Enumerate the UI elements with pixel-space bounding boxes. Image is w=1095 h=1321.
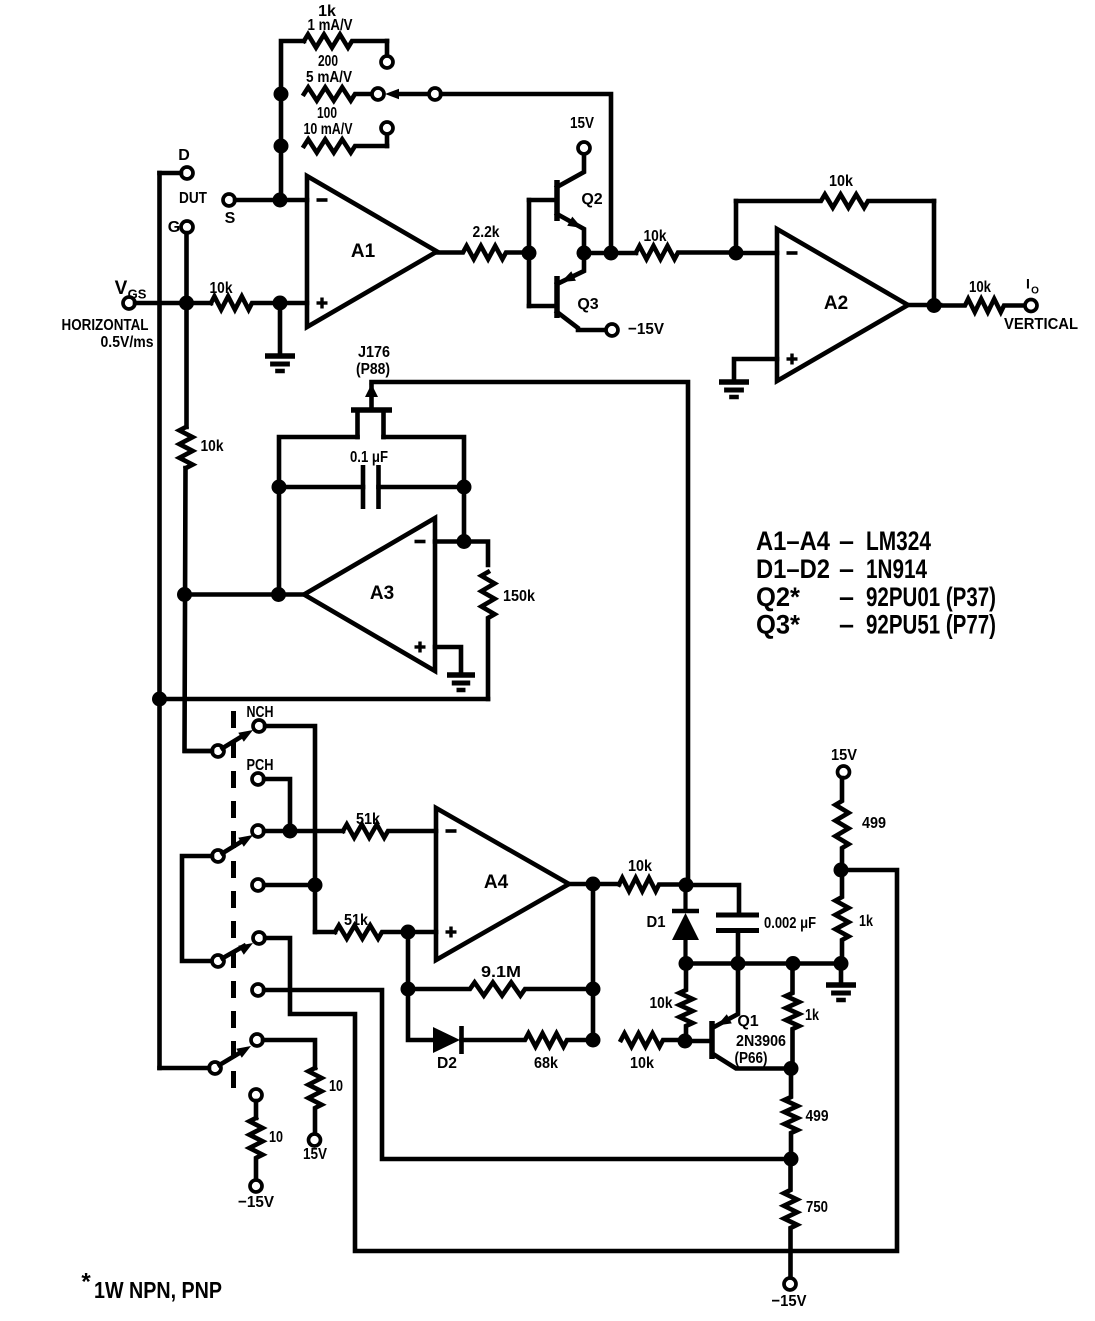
- wire cap bottom lead: [736, 931, 741, 964]
- svg-text:100: 100: [317, 105, 337, 122]
- svg-text:5 mA/V: 5 mA/V: [306, 69, 352, 86]
- terminal G: [181, 221, 193, 233]
- svg-text:Q2*: Q2*: [756, 582, 800, 612]
- resistor 10k base: [621, 1033, 685, 1046]
- arrow Q2 emitter NPN: [567, 217, 582, 228]
- switch contact NCH: [253, 720, 265, 732]
- terminal jack 200: [372, 88, 384, 100]
- switch arm 2: [212, 850, 224, 862]
- svg-text:9.1M: 9.1M: [481, 964, 521, 981]
- wire C3 to 51k: [264, 829, 343, 834]
- wire sense line: [399, 92, 429, 97]
- svg-text:A2: A2: [824, 293, 848, 314]
- terminal IO: [1025, 300, 1037, 312]
- svg-text:1k: 1k: [805, 1007, 819, 1024]
- switch wafer dashed line: [231, 711, 236, 1096]
- ground A1 plus: [265, 353, 295, 359]
- svg-text:0.002 μF: 0.002 μF: [764, 915, 816, 932]
- junction A4 plus: [401, 925, 416, 940]
- wire A4 fb vertical: [591, 884, 596, 1040]
- svg-text:10k: 10k: [969, 279, 991, 296]
- wire J176 gate stem: [369, 386, 374, 408]
- resistor 51k upper: [343, 824, 436, 837]
- svg-text:10k: 10k: [628, 858, 652, 875]
- svg-text:68k: 68k: [534, 1055, 558, 1072]
- svg-text:(P88): (P88): [356, 361, 390, 378]
- wire Q1 base: [685, 1039, 711, 1044]
- wire NCH corner to 51k: [315, 930, 335, 935]
- wire G rail lower: [185, 468, 213, 751]
- wire J176 gate line: [372, 382, 689, 885]
- resistor 2.2k: [437, 246, 523, 259]
- junction 9.1M left: [401, 982, 416, 997]
- switch arm 1: [212, 745, 224, 757]
- junction 499-1k: [834, 863, 849, 878]
- junction N2 gnd: [834, 956, 849, 971]
- svg-text:10k: 10k: [210, 280, 233, 297]
- svg-text:D1: D1: [647, 914, 666, 931]
- wire arm 1 line: [223, 735, 245, 748]
- svg-text:1N914: 1N914: [866, 554, 927, 584]
- wire A2 feedback left: [734, 201, 739, 253]
- junction A3 out loop: [271, 587, 286, 602]
- resistor 51k lower: [335, 925, 408, 938]
- op-amp A4: [436, 808, 569, 960]
- svg-text:10k: 10k: [644, 228, 667, 245]
- resistor 10k horizontal-input: [211, 296, 307, 309]
- svg-text:−15V: −15V: [238, 1194, 274, 1211]
- svg-text:Q1: Q1: [737, 1013, 758, 1030]
- wire emitters to 10k: [584, 251, 636, 256]
- wire arm 4 line: [220, 1052, 243, 1066]
- svg-text:499: 499: [862, 815, 886, 832]
- resistor 499 top: [835, 778, 848, 870]
- wire G rail with corner to switch arm: [184, 233, 189, 427]
- wire sense line to emitters: [441, 94, 611, 253]
- wire A2 output: [908, 303, 940, 308]
- terminal 15V right: [838, 766, 850, 778]
- resistor 10k output: [940, 299, 1025, 312]
- wire resistor-bank left rail: [281, 41, 304, 200]
- arrow arm 2: [238, 835, 253, 847]
- transistor J176 channel bar: [351, 407, 392, 413]
- junction base node: [522, 246, 537, 261]
- svg-text:HORIZONTAL: HORIZONTAL: [62, 317, 149, 334]
- wire A4 output: [569, 882, 619, 887]
- svg-text:–: –: [839, 582, 854, 612]
- switch arm 4: [209, 1062, 221, 1074]
- svg-text:S: S: [225, 210, 236, 227]
- junction S-rail: [273, 193, 288, 208]
- wire N2 ground stub: [839, 964, 844, 985]
- resistor 1k low: [786, 964, 799, 1069]
- resistor 1k (1 mA/V): [304, 34, 387, 47]
- wire Q3 base: [529, 304, 556, 309]
- resistor 10k Q1 base: [679, 964, 692, 1042]
- wire arm 2 line: [223, 840, 245, 853]
- wire Q1 emitter: [714, 964, 738, 1028]
- wire arm 4 to left rail: [160, 1066, 210, 1071]
- junction cap right: [457, 480, 472, 495]
- wire J176 left leg: [355, 410, 360, 437]
- transistor Q2 bar: [554, 180, 560, 221]
- svg-text:VERTICAL: VERTICAL: [1004, 316, 1078, 333]
- svg-text:A4: A4: [484, 872, 509, 893]
- arrow sense plug: [385, 89, 399, 99]
- junction 9.1M right: [586, 982, 601, 997]
- switch contact C4: [252, 879, 264, 891]
- terminal S: [223, 194, 235, 206]
- junction rail-200: [274, 87, 289, 102]
- wire A2 inv input: [736, 251, 777, 256]
- svg-text:0.5V/ms: 0.5V/ms: [101, 334, 154, 351]
- junction D1 top: [679, 878, 694, 893]
- resistor 10k A4 out: [619, 878, 686, 891]
- wire Q2 emitter: [557, 214, 584, 253]
- svg-text:Q3: Q3: [577, 296, 598, 313]
- svg-text:1 mA/V: 1 mA/V: [308, 17, 353, 34]
- arrow arm 1: [238, 730, 253, 742]
- wire left rail: [157, 173, 162, 1068]
- junction N2 Q1 emitter: [731, 956, 746, 971]
- junction G-VGS: [179, 296, 194, 311]
- resistor 1k top: [835, 870, 848, 964]
- svg-text:150k: 150k: [503, 588, 535, 605]
- switch contact C6: [252, 984, 264, 996]
- resistor 10 neg: [249, 1118, 262, 1180]
- junction 499-750: [784, 1152, 799, 1167]
- terminal -15V bottom: [784, 1278, 796, 1290]
- ground A3 plus: [447, 672, 475, 678]
- wire A2 plus input: [734, 359, 777, 381]
- resistor 10k to A2: [636, 246, 736, 259]
- junction 10k A1 plus: [273, 296, 288, 311]
- terminal jack 100: [381, 122, 393, 134]
- junction sense-emitter: [604, 246, 619, 261]
- svg-text:DUT: DUT: [179, 190, 207, 207]
- switch contact C8: [250, 1089, 262, 1101]
- wire Q1 collector: [713, 1054, 791, 1069]
- svg-text:A1: A1: [351, 241, 376, 262]
- svg-text:0.1 μF: 0.1 μF: [350, 449, 388, 466]
- switch contact C7: [251, 1034, 263, 1046]
- arrow Q3 emitter PNP: [561, 271, 576, 282]
- op-amp A1: [307, 176, 437, 327]
- wire arm 2-3 bracket: [182, 856, 212, 961]
- terminal D: [181, 167, 193, 179]
- svg-text:V: V: [115, 278, 128, 299]
- wire arm 1 to G rail: [185, 749, 212, 754]
- svg-text:2.2k: 2.2k: [473, 224, 500, 241]
- junction N2 1k: [786, 956, 801, 971]
- junction A4 out: [586, 877, 601, 892]
- ground N2: [826, 982, 856, 988]
- svg-text:51k: 51k: [356, 811, 380, 828]
- svg-text:Q3*: Q3*: [756, 610, 800, 640]
- svg-text:1k: 1k: [859, 913, 873, 930]
- wire C4 to NCH line: [264, 883, 315, 888]
- svg-text:−15V: −15V: [628, 321, 664, 338]
- wire arm 3 line: [223, 946, 245, 958]
- switch arm 3: [212, 955, 224, 967]
- wire A4 plus down: [408, 932, 433, 1040]
- svg-text:2N3906: 2N3906: [736, 1033, 786, 1050]
- ground A2 plus: [719, 379, 749, 385]
- op-amp A3: [304, 518, 435, 671]
- junction A3 out G rail: [177, 587, 192, 602]
- svg-text:750: 750: [806, 1199, 828, 1216]
- junction rail-100: [274, 139, 289, 154]
- wire J176 right leg: [381, 410, 386, 437]
- switch contact C3: [252, 825, 264, 837]
- svg-text:–: –: [839, 554, 854, 584]
- junction N2 D1: [679, 956, 694, 971]
- wire 1k to jack: [385, 41, 390, 56]
- arrow J176 gate: [365, 384, 378, 397]
- wire D to left rail: [160, 171, 182, 176]
- wire node N2: [686, 961, 841, 966]
- terminal -15V Q3: [606, 324, 618, 336]
- svg-text:15V: 15V: [570, 115, 594, 132]
- svg-text:A1–A4: A1–A4: [756, 526, 830, 556]
- wire 100 to jack: [385, 134, 390, 146]
- wire Q2 base: [529, 198, 556, 203]
- terminal 15V Q2: [578, 142, 590, 154]
- transistor Q3 bar: [554, 276, 560, 318]
- resistor 10k A2 feedback: [736, 194, 934, 207]
- svg-text:15V: 15V: [303, 1146, 327, 1163]
- wire D1 top to cap: [686, 885, 739, 915]
- diode D1: [672, 909, 699, 914]
- junction 68k-10k: [586, 1033, 601, 1048]
- wire C6 path to 499-750 node: [264, 990, 791, 1159]
- resistor 9.1M: [408, 982, 593, 995]
- svg-text:(P66): (P66): [735, 1050, 768, 1067]
- capacitor 0.002uF plates: [716, 913, 759, 918]
- svg-text:LM324: LM324: [866, 526, 931, 556]
- svg-text:10k: 10k: [630, 1055, 654, 1072]
- terminal 15V bottom: [309, 1134, 321, 1146]
- svg-text:O: O: [1031, 286, 1039, 297]
- svg-text:10k: 10k: [201, 438, 224, 455]
- resistor 499 low: [784, 1069, 797, 1160]
- svg-text:10: 10: [269, 1129, 283, 1146]
- switch contact PCH: [252, 773, 264, 785]
- transistor Q1 bar: [709, 1021, 715, 1059]
- junction C4-NCH: [308, 878, 323, 893]
- junction base Q1: [678, 1034, 693, 1049]
- svg-text:J176: J176: [358, 344, 390, 361]
- resistor 10k G rail: [179, 427, 192, 468]
- wire A3 plus input: [435, 647, 461, 674]
- op-amp A2: [777, 229, 908, 381]
- wire PCH down: [264, 779, 290, 831]
- arrow arm 4: [236, 1046, 251, 1058]
- wire NCH to A4: [265, 726, 315, 932]
- wire cap left lead: [279, 485, 363, 490]
- diode D2: [433, 1027, 460, 1053]
- terminal sense plug: [429, 88, 441, 100]
- junction collector node: [784, 1061, 799, 1076]
- svg-text:I: I: [1026, 276, 1030, 292]
- wire VGS to 10k: [135, 301, 211, 306]
- wire C8 to 10: [254, 1101, 259, 1118]
- junction left rail 150k: [152, 692, 167, 707]
- resistor 10 switch: [308, 1068, 321, 1134]
- resistor 68k: [462, 1033, 594, 1046]
- wire Q3 collector: [557, 312, 606, 330]
- switch contact C5: [253, 932, 265, 944]
- junction PCH-C3: [283, 824, 298, 839]
- svg-text:−15V: −15V: [772, 1293, 807, 1310]
- svg-text:1W NPN, PNP: 1W NPN, PNP: [94, 1277, 222, 1303]
- svg-text:10: 10: [329, 1078, 343, 1095]
- svg-text:A3: A3: [370, 583, 394, 604]
- svg-text:15V: 15V: [831, 747, 857, 764]
- svg-text:–: –: [839, 526, 854, 556]
- junction cap left: [272, 480, 287, 495]
- junction A2 out: [927, 298, 942, 313]
- svg-text:10k: 10k: [829, 173, 853, 190]
- svg-text:499: 499: [806, 1108, 829, 1125]
- svg-text:D1–D2: D1–D2: [756, 554, 830, 584]
- wire cap loop top left: [279, 437, 358, 595]
- svg-text:*: *: [81, 1268, 91, 1295]
- svg-text:–: –: [839, 610, 854, 640]
- wire A3 inv input: [435, 542, 488, 566]
- svg-text:10 mA/V: 10 mA/V: [304, 121, 353, 138]
- wire base rail: [527, 200, 532, 306]
- arrow Q1 emitter PNP: [717, 1014, 732, 1025]
- wire Q3 emitter: [557, 253, 584, 284]
- resistor 750: [784, 1159, 797, 1277]
- terminal jack 1k: [381, 56, 393, 68]
- svg-text:10k: 10k: [650, 995, 673, 1012]
- svg-text:Q2: Q2: [581, 191, 602, 208]
- wire A2 feedback right: [932, 201, 937, 306]
- svg-text:51k: 51k: [344, 912, 368, 929]
- wire 150k bottom line: [160, 697, 489, 702]
- junction A3 inv: [457, 534, 472, 549]
- svg-text:D: D: [178, 147, 190, 164]
- svg-text:G: G: [168, 219, 180, 236]
- arrow arm 3: [238, 943, 253, 955]
- wire A1 plus ground stub: [278, 303, 283, 355]
- resistor 200 (5 mA/V): [304, 87, 372, 100]
- terminal -15V bottom-left: [250, 1180, 262, 1192]
- wire A3 output: [184, 592, 304, 597]
- wire S to A1 inv input: [235, 198, 307, 203]
- capacitor 0.1uF plates: [361, 465, 366, 509]
- svg-text:92PU01 (P37): 92PU01 (P37): [866, 582, 996, 612]
- svg-text:200: 200: [318, 53, 338, 70]
- resistor 100 (10 mA/V): [304, 139, 387, 152]
- junction emitter node: [577, 246, 592, 261]
- wire cap right lead: [379, 485, 465, 490]
- wire cap loop top right: [384, 437, 465, 542]
- wire Q2 collector: [557, 154, 584, 187]
- junction A2 inv: [729, 246, 744, 261]
- svg-text:92PU51 (P77): 92PU51 (P77): [866, 610, 996, 640]
- resistor 150k: [481, 572, 494, 699]
- wire C5 path to right rail: [265, 870, 897, 1251]
- terminal VGS: [123, 297, 135, 309]
- wire C7 to 10: [263, 1040, 315, 1068]
- svg-text:D2: D2: [437, 1055, 457, 1072]
- wire 51k to A4 plus: [408, 930, 436, 935]
